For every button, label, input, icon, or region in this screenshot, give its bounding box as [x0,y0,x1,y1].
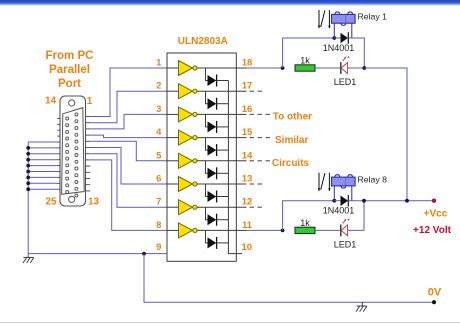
buffer channel 3 output wire [197,113,236,115]
wire clamp diode 6 cathode to common rail [217,196,229,198]
node: relay 1 coil left terminal junction [332,36,336,40]
svg-text:8: 8 [156,220,161,231]
resistor R1 1k [295,65,315,71]
svg-text:14: 14 [242,150,253,161]
buffer 6 inverting bubble [193,182,197,186]
svg-text:Similar: Similar [275,135,308,146]
connector J1 pin circles right column (pins 1-13) [75,113,78,197]
buffer 7 inverting bubble [193,205,197,209]
svg-text:Port: Port [58,78,81,90]
svg-text:7: 7 [156,197,161,208]
buffer channel 5 input wire [167,160,179,162]
buffer 4 inverting bubble [193,136,197,140]
svg-text:14: 14 [45,96,57,107]
node 0V terminal [432,300,436,304]
wire drop to clamp diode 5 [206,161,208,174]
junction on ground bus 6 [26,176,30,180]
clamp diode D3 (internal) [208,121,217,133]
svg-text:From PC: From PC [46,50,94,62]
clamp diode D7 (internal) [208,214,217,226]
buffer channel 8 input wire [167,229,179,231]
clamp diode D8 (internal) [208,237,217,249]
wire ground bus branch 6 [28,176,57,178]
resistor R8 1k [295,227,315,233]
diode 1N4001 (relay 1 freewheel) [334,32,348,44]
clamp diode D2 (internal) [208,98,217,110]
svg-text:ULN2803A: ULN2803A [178,36,228,47]
wire stub ULN pin 18 [236,67,246,69]
junction on ground bus 8 [26,187,30,191]
node: junction pin9 wire to 0V rail [142,252,146,256]
svg-text:10: 10 [242,242,253,253]
connector J1 DB25 shell [60,96,86,206]
node: branch junction relay 1 [281,66,285,70]
buffer 3 inverting bubble [193,112,197,116]
wire ground bus branch 3 [28,159,57,161]
node: relay 8 rail junction with relay 1 feed [405,199,409,203]
wire input 6: connector pin to ULN pin 6 [90,148,167,185]
buffer channel 8 output wire [197,229,236,231]
buffer channel 2 input wire [167,90,179,92]
svg-text:1: 1 [156,58,162,69]
junction on ground bus 4 [26,164,30,168]
svg-text:1k: 1k [300,218,310,228]
svg-text:Relay 8: Relay 8 [358,174,388,184]
wire clamp diode 1 cathode to common rail [217,80,229,82]
dashed continuation pin 17 [250,90,263,92]
connector J1 left pin stubs [57,118,60,189]
wire drop to clamp diode 8 [206,230,208,243]
wire resistor R1 right to LED [315,67,341,69]
wire ground bus branch 8 [28,188,57,190]
label: From PC Parallel Port [46,50,94,90]
bottom edge line [0,322,460,324]
svg-text:Parallel: Parallel [49,64,90,76]
svg-text:+Vcc: +Vcc [424,209,448,220]
wire branch up to relay 8 coil rail [283,201,335,231]
buffer (darlington driver) 2 triangle [179,84,193,99]
node: relay 8 coil left terminal junction [332,199,336,203]
wire pin 9 ground: bus to ULN pin 9 [28,253,167,255]
buffer (darlington driver) 3 triangle [179,107,193,122]
wire input 1: connector pin to ULN pin 1 [90,68,167,117]
connector J1 top screw hole [69,100,75,106]
wire ground bus branch 2 [28,153,57,155]
buffer channel 4 output wire [197,137,236,139]
wire LED right side (relay 8) [348,229,364,231]
wire relay 1 row to +V drop [364,68,407,201]
svg-text:To other: To other [273,112,312,123]
svg-text:6: 6 [156,174,161,185]
buffer channel 7 input wire [167,206,179,208]
connector J1 pin insert [62,108,85,195]
svg-text:1N4001: 1N4001 [323,206,355,216]
svg-text:1: 1 [87,96,93,107]
wire stub ULN pin 16 [236,113,246,115]
wire ground bus branch 5 [28,171,57,173]
junction on ground bus 7 [26,181,30,185]
svg-text:Relay 1: Relay 1 [358,12,388,22]
wire clamp diode 3 cathode to common rail [217,126,229,128]
buffer (darlington driver) 5 triangle [179,153,193,168]
svg-text:2: 2 [156,81,161,92]
wire clamp diode 7 cathode to common rail [217,219,229,221]
wire stub ULN pin 11 [236,229,246,231]
LED LED1 (relay 8) [341,219,350,237]
wire input 4: connector pin to ULN pin 4 [90,135,167,138]
buffer channel 7 output wire [197,206,236,208]
wire drop to clamp diode 4 [206,138,208,151]
dashed continuation pin 15 [250,137,271,139]
wire ground bus top branch to pin 17 [28,141,57,143]
node: branch junction relay 8 [281,229,285,233]
svg-text:5: 5 [156,150,162,161]
wire ULN pin output to relay 8 branch [247,229,283,231]
buffer 5 inverting bubble [193,159,197,163]
clamp diode D1 (internal) [208,75,217,87]
wire stub ULN pin 13 [236,183,246,185]
relay 1 coil [332,12,356,25]
IC U1 ULN2803A outline [167,53,236,261]
wire LED branch up (relay 8) [363,201,365,231]
svg-text:18: 18 [242,58,253,69]
wire drop to clamp diode 7 [206,207,208,220]
buffer (darlington driver) 7 triangle [179,200,193,215]
buffer channel 1 output wire [197,67,236,69]
buffer channel 2 output wire [197,90,236,92]
svg-text:LED1: LED1 [334,77,357,87]
dashed continuation pin 13 [250,183,263,185]
wire drop to clamp diode 1 [206,68,208,81]
buffer channel 1 input wire [167,67,179,69]
wire input 5: connector pin to ULN pin 5 [90,141,167,161]
svg-text:0V: 0V [428,286,442,298]
buffer channel 5 output wire [197,160,236,162]
buffer (darlington driver) 1 triangle [179,61,193,76]
wire relay 8 coil right terminal [351,186,353,201]
wire clamp diode 2 cathode to common rail [217,103,229,105]
wire relay 8 cathode to +Vcc [348,200,434,202]
wire common diode rail to pin 10 [228,81,242,254]
wire stub ULN pin 15 [236,137,246,139]
svg-text:1N4001: 1N4001 [323,43,355,53]
wire stub ULN pin 12 [236,206,246,208]
svg-text:9: 9 [156,242,161,253]
wire ground bus branch 7 [28,182,57,184]
wire input 3: connector pin to ULN pin 3 [90,114,167,128]
buffer 8 inverting bubble [193,228,197,232]
wire relay 1 coil right terminal [351,23,353,38]
wire branch up to relay 1 coil rail [283,38,335,68]
svg-text:13: 13 [88,197,100,208]
wire drop to clamp diode 3 [206,114,208,127]
wire input 2: connector pin to ULN pin 2 [90,91,167,123]
clamp diode D6 (internal) [208,191,217,203]
buffer channel 6 output wire [197,183,236,185]
svg-text:13: 13 [242,174,253,185]
wire LED right side (relay 1) [348,67,364,69]
svg-text:16: 16 [242,104,253,115]
junction on ground bus 1 [26,146,30,150]
svg-text:+12 Volt: +12 Volt [413,225,452,236]
svg-text:4: 4 [156,127,162,138]
junction on ground bus 5 [26,170,30,174]
wire clamp diode 8 cathode to common rail [217,242,229,244]
buffer (darlington driver) 8 triangle [179,223,193,238]
svg-text:Circuits: Circuits [272,158,310,169]
wire input 8: connector pin to ULN pin 8 [90,160,167,231]
wire stub ULN pin 17 [236,90,246,92]
node: relay 8 rail junction with LED branch [362,199,366,203]
connector J1 bottom screw hole [69,196,75,202]
dashed continuation pin 12 [250,206,263,208]
wire drop to clamp diode 2 [206,91,208,104]
wire relay 1 cathode to right drop [348,38,364,68]
wire relay 8 coil left terminal [333,186,335,201]
relay 8 coil [332,175,356,188]
clamp diode D4 (internal) [208,144,217,156]
connector J1 pin circles left column (pins 14-25) [66,117,69,194]
svg-text:1k: 1k [300,55,310,65]
svg-text:12: 12 [242,197,253,208]
buffer channel 6 input wire [167,183,179,185]
wire ground bus branch 4 [28,165,57,167]
wire stub ULN pin 14 [236,160,246,162]
wire clamp diode 4 cathode to common rail [217,149,229,151]
buffer (darlington driver) 4 triangle [179,130,193,145]
buffer (darlington driver) 6 triangle [179,177,193,192]
buffer 1 inverting bubble [193,66,197,70]
dashed continuation pin 14 [250,160,271,162]
junction on ground bus 3 [26,158,30,162]
wire relay 1 coil left terminal [333,23,335,38]
LED LED1 (relay 1) [341,56,350,74]
svg-text:25: 25 [45,197,57,208]
wire drop to clamp diode 6 [206,184,208,197]
svg-text:3: 3 [156,104,161,115]
node +Vcc terminal [432,199,436,203]
connector J1 right pin stubs [85,117,90,191]
dashed continuation pin 16 [250,113,271,115]
relay 8 contact symbol [318,173,331,192]
ground (chassis) symbol on 0V rail [356,302,367,311]
relay 1 contact symbol [318,10,331,29]
wire ULN pin output to relay 1 branch [247,67,283,69]
junction on ground bus 2 [26,152,30,156]
wire ground bus branch 1 [28,147,57,149]
svg-text:15: 15 [242,127,253,138]
node: relay 1 row right junction [362,66,366,70]
svg-text:11: 11 [242,220,253,231]
svg-text:17: 17 [242,81,253,92]
wire input 7: connector pin to ULN pin 7 [90,154,167,208]
buffer 2 inverting bubble [193,89,197,93]
clamp diode D5 (internal) [208,167,217,179]
top banner bar [0,0,460,6]
buffer channel 4 input wire [167,137,179,139]
ground (chassis) symbol left [23,257,34,263]
wire 0V drop from pin9 junction [144,254,434,303]
diode 1N4001 (relay 8 freewheel) [334,195,348,207]
wire ground bus vertical [27,142,29,257]
buffer channel 3 input wire [167,113,179,115]
wire resistor R8 right to LED [315,229,341,231]
wire clamp diode 5 cathode to common rail [217,172,229,174]
svg-text:LED1: LED1 [334,239,357,249]
